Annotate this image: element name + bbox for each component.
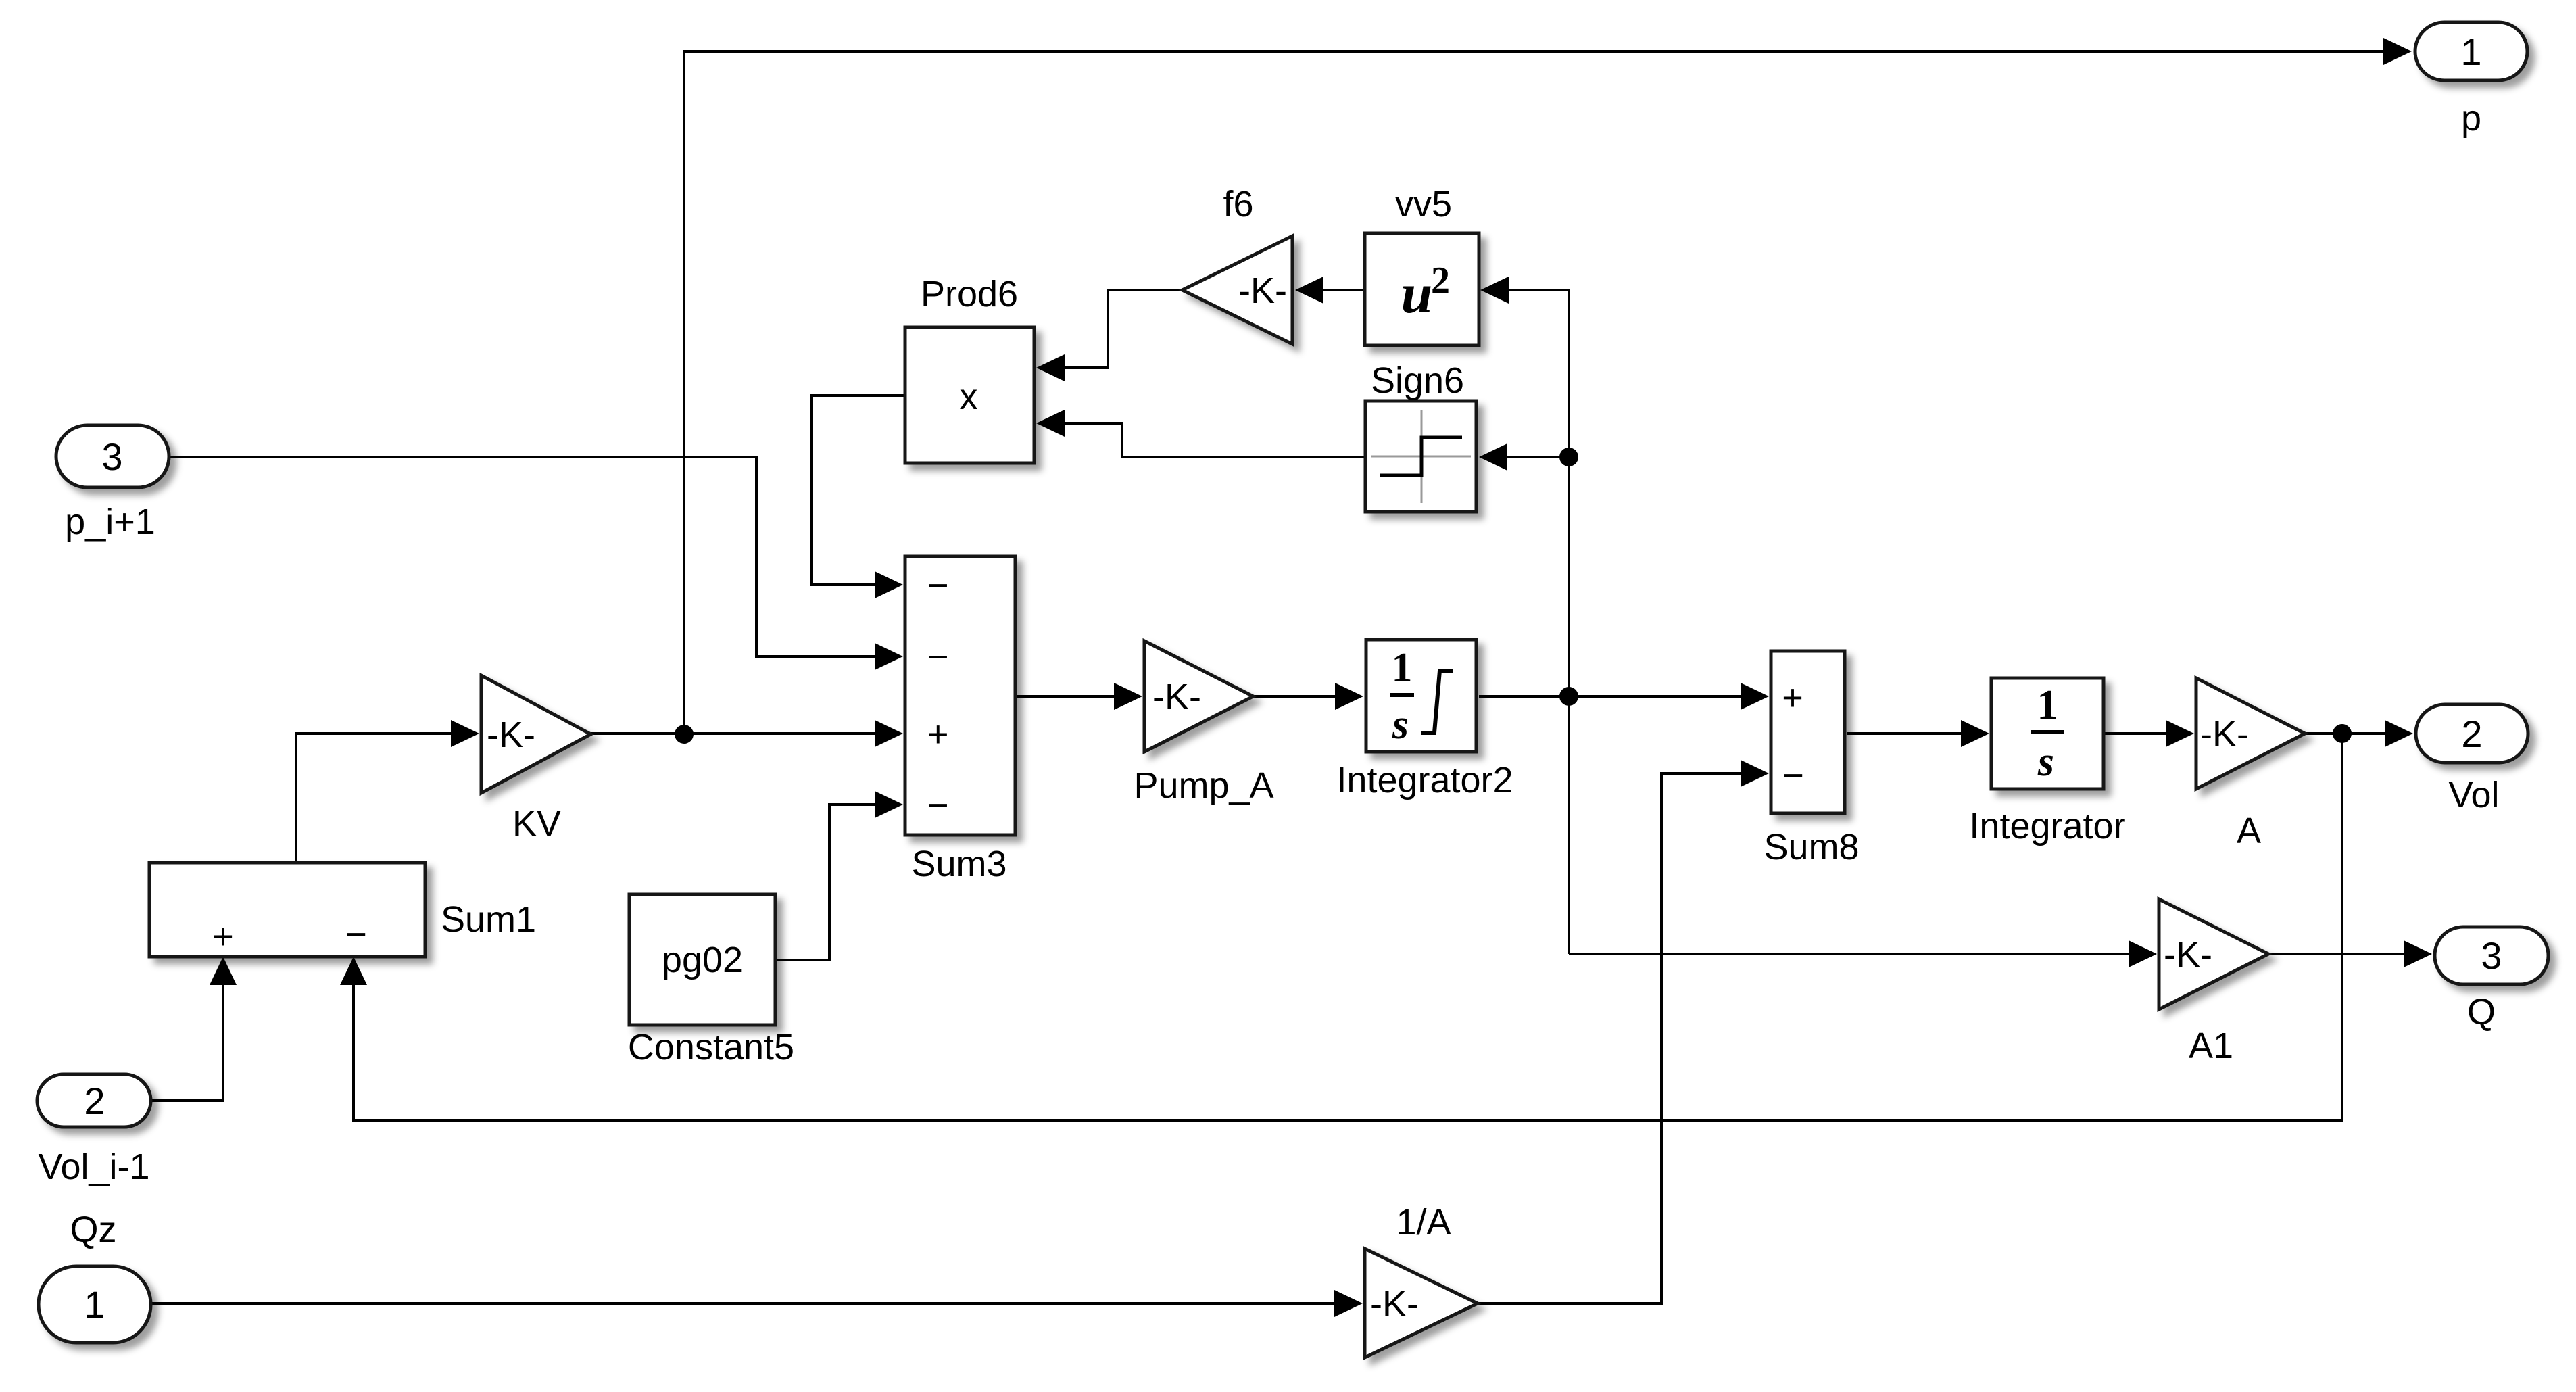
wire from Integrator2 output to Sum8 plus input xyxy=(1479,683,1769,710)
svg-text:Vol_i-1: Vol_i-1 xyxy=(38,1147,149,1187)
gain f6 (left pointing) xyxy=(1182,184,1292,344)
svg-text:s: s xyxy=(2037,739,2054,785)
wire from port Vol_i-1 to Sum1 plus input xyxy=(151,957,237,1101)
gain A1 xyxy=(2159,899,2268,1066)
svg-text:3: 3 xyxy=(101,435,122,478)
block Sum8 xyxy=(1764,651,1859,867)
svg-text:Integrator2: Integrator2 xyxy=(1336,760,1513,800)
svg-text:-K-: -K- xyxy=(1238,270,1287,311)
gain Pump_A xyxy=(1134,641,1273,806)
gain A xyxy=(2196,678,2305,851)
gain KV xyxy=(481,675,591,844)
wire from Sum3 output to Pump_A input xyxy=(1015,683,1142,710)
input port 2 Vol_i-1 xyxy=(37,1074,151,1187)
wire from Integrator output to A input xyxy=(2104,720,2194,747)
svg-text:Sum1: Sum1 xyxy=(441,899,536,940)
svg-text:Sign6: Sign6 xyxy=(1371,360,1464,401)
wire from KV output node up and across top to port p xyxy=(684,38,2412,734)
gain 1/A xyxy=(1365,1202,1478,1358)
node on Vol output (feedback tap) xyxy=(2333,724,2352,743)
wire from 1/A output up to Sum8 minus input xyxy=(1478,760,1769,1303)
node on KV output (junction dot) xyxy=(675,725,694,744)
block Prod6 (product) xyxy=(905,274,1034,463)
block Sign6 (signum) xyxy=(1365,360,1476,512)
svg-text:p_i+1: p_i+1 xyxy=(65,502,155,542)
svg-text:Qz: Qz xyxy=(70,1209,116,1250)
output port 3 Q xyxy=(2435,927,2548,1032)
output port 1 p xyxy=(2415,22,2527,139)
svg-text:-K-: -K- xyxy=(2200,714,2249,754)
svg-text:vv5: vv5 xyxy=(1395,184,1452,224)
svg-text:pg02: pg02 xyxy=(662,940,743,980)
block vv5 (u squared) xyxy=(1365,184,1479,345)
wire feedback from Vol node down, left, up to Sum1 minus input xyxy=(340,734,2342,1120)
output port 2 Vol xyxy=(2416,704,2528,815)
wire from Sign6 output to Prod6 input 2 xyxy=(1036,410,1365,457)
svg-text:A1: A1 xyxy=(2189,1026,2233,1066)
svg-text:−: − xyxy=(345,914,367,955)
svg-text:p: p xyxy=(2461,98,2481,139)
block Integrator (1/s) xyxy=(1969,678,2125,846)
wire from A output to port Vol xyxy=(2305,720,2413,747)
svg-text:+: + xyxy=(1782,677,1803,718)
svg-text:Vol: Vol xyxy=(2448,775,2499,815)
svg-text:-K-: -K- xyxy=(1152,677,1201,717)
svg-text:Prod6: Prod6 xyxy=(921,274,1018,314)
input port 1 Qz xyxy=(39,1209,151,1343)
svg-text:1: 1 xyxy=(84,1283,105,1326)
svg-text:KV: KV xyxy=(512,803,561,844)
wire from f6 output to Prod6 input 1 xyxy=(1036,290,1182,381)
node at Sign6 tap xyxy=(1559,448,1578,466)
svg-text:3: 3 xyxy=(2481,934,2502,977)
svg-text:1: 1 xyxy=(2460,30,2481,73)
svg-text:Sum3: Sum3 xyxy=(911,844,1006,884)
block Sum3 xyxy=(905,556,1015,884)
svg-text:Integrator: Integrator xyxy=(1969,806,2125,846)
block Integrator2 (1/s with saturation) xyxy=(1336,640,1513,800)
svg-text:x: x xyxy=(960,377,978,417)
svg-text:-K-: -K- xyxy=(1370,1284,1419,1324)
svg-text:−: − xyxy=(927,637,949,677)
svg-text:2: 2 xyxy=(1431,260,1450,302)
svg-text:Q: Q xyxy=(2467,992,2496,1032)
wire from port Qz to 1/A input xyxy=(151,1290,1363,1317)
input port 3 p_i+1 xyxy=(56,425,169,542)
wire from vv5 output to f6 input xyxy=(1295,277,1365,304)
wire from trunk corner to A1 input xyxy=(1569,940,2157,967)
wire from Pump_A output to Integrator2 input xyxy=(1253,683,1363,710)
svg-text:s: s xyxy=(1392,702,1409,748)
wire from KV output to Sum3 input 3 xyxy=(591,720,903,747)
svg-text:A: A xyxy=(2237,811,2261,851)
svg-text:1: 1 xyxy=(2037,682,2058,728)
wire from trunk to Sign6 input xyxy=(1479,443,1569,471)
node on Integrator2 output trunk junction xyxy=(1559,687,1578,706)
svg-text:Constant5: Constant5 xyxy=(628,1027,794,1067)
svg-text:1/A: 1/A xyxy=(1396,1202,1451,1243)
svg-text:−: − xyxy=(1782,755,1804,796)
wire from A1 output to port Q xyxy=(2268,940,2432,967)
block Constant5 (pg02) xyxy=(628,894,794,1067)
svg-text:2: 2 xyxy=(84,1080,105,1122)
wire from Sum8 output to Integrator input xyxy=(1847,720,1989,747)
svg-text:1: 1 xyxy=(1392,645,1413,691)
wire from Prod6 output to Sum3 input 1 xyxy=(812,395,905,598)
wire from Sum1 output up to KV input xyxy=(296,720,479,863)
wire from port p_i+1 to Sum3 input 2 xyxy=(169,457,903,670)
svg-text:−: − xyxy=(927,565,949,606)
svg-text:-K-: -K- xyxy=(2164,934,2212,975)
block Sum1 xyxy=(149,863,536,957)
wire from Constant5 output to Sum3 input 4 xyxy=(775,791,903,960)
svg-text:2: 2 xyxy=(2461,713,2482,755)
svg-text:f6: f6 xyxy=(1223,184,1253,224)
wire vertical trunk from vv5 row down to A1 row xyxy=(1480,277,1569,954)
svg-text:u: u xyxy=(1401,262,1433,325)
svg-text:+: + xyxy=(212,916,234,957)
svg-text:+: + xyxy=(927,714,949,754)
svg-text:−: − xyxy=(927,785,949,825)
svg-text:Pump_A: Pump_A xyxy=(1134,765,1273,806)
svg-text:Sum8: Sum8 xyxy=(1764,827,1859,867)
svg-text:-K-: -K- xyxy=(487,715,535,755)
